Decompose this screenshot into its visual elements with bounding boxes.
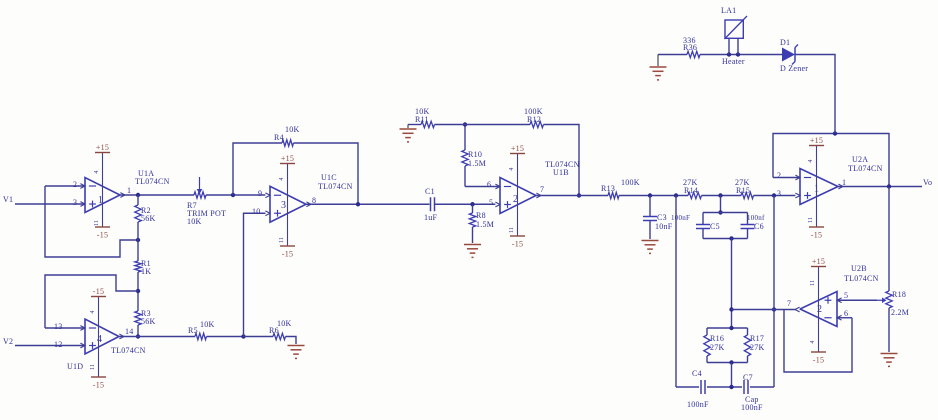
svg-text:-15: -15 [282,250,293,259]
svg-text:1uF: 1uF [424,213,438,222]
svg-text:4: 4 [97,334,102,345]
svg-text:2: 2 [73,180,77,189]
svg-text:3: 3 [777,189,781,198]
svg-text:+15: +15 [511,144,524,153]
svg-text:4: 4 [94,170,100,173]
svg-text:-15: -15 [93,381,104,390]
svg-text:V2: V2 [3,337,13,346]
svg-text:-15: -15 [97,231,108,240]
svg-text:TL074CN: TL074CN [135,177,170,186]
svg-text:R14: R14 [684,186,698,195]
svg-text:+15: +15 [812,257,825,266]
svg-text:1.5M: 1.5M [476,220,494,229]
svg-text:C7: C7 [743,373,753,382]
svg-text:3: 3 [281,200,286,211]
svg-text:R5: R5 [188,326,198,335]
svg-text:11: 11 [509,227,515,233]
svg-text:C3: C3 [657,213,667,222]
svg-text:11: 11 [808,217,814,223]
svg-text:U1C: U1C [321,173,337,182]
svg-text:-15: -15 [811,231,822,240]
svg-text:14: 14 [125,327,134,336]
svg-text:4: 4 [279,177,285,180]
svg-text:+15: +15 [281,154,294,163]
svg-text:C1: C1 [425,187,435,196]
svg-text:27K: 27K [750,343,765,352]
svg-text:100nf: 100nf [747,214,765,222]
svg-text:+15: +15 [96,143,109,152]
svg-text:4: 4 [808,159,814,162]
svg-text:11: 11 [94,220,100,226]
svg-text:TL074CN: TL074CN [844,274,879,283]
svg-text:4: 4 [90,310,96,313]
svg-text:56K: 56K [141,317,156,326]
svg-text:13: 13 [54,322,63,331]
svg-text:U1B: U1B [553,168,569,177]
svg-text:D Zener: D Zener [780,64,808,73]
svg-text:11: 11 [279,237,285,243]
svg-text:R12: R12 [527,115,541,124]
svg-text:1: 1 [127,186,131,195]
svg-text:10K: 10K [187,217,202,226]
svg-text:10: 10 [252,207,261,216]
svg-text:3: 3 [73,198,77,207]
svg-text:1.5M: 1.5M [468,159,486,168]
svg-text:C5: C5 [710,222,720,231]
svg-text:R8: R8 [476,211,486,220]
svg-text:2.2M: 2.2M [891,308,909,317]
svg-text:LA1: LA1 [721,6,736,15]
svg-text:6: 6 [844,309,848,318]
svg-text:U2B: U2B [851,264,867,273]
svg-text:Heater: Heater [722,57,745,66]
svg-text:R17: R17 [750,334,764,343]
svg-text:4: 4 [810,340,816,343]
svg-text:R11: R11 [415,115,429,124]
svg-text:5: 5 [844,291,848,300]
svg-text:56K: 56K [141,214,156,223]
svg-text:27K: 27K [710,343,725,352]
svg-text:R4: R4 [274,133,284,142]
svg-text:1: 1 [842,178,846,187]
svg-text:100nF: 100nF [671,214,690,222]
svg-text:11: 11 [90,364,96,370]
svg-text:C4: C4 [692,369,702,378]
svg-text:100K: 100K [621,178,640,187]
svg-text:100nF: 100nF [687,400,709,409]
svg-text:11: 11 [810,280,816,286]
svg-text:D1: D1 [780,38,790,47]
svg-text:5: 5 [489,198,493,207]
svg-text:4: 4 [509,167,515,170]
svg-text:R10: R10 [468,150,482,159]
svg-text:TL074CN: TL074CN [111,346,146,355]
svg-text:9: 9 [258,189,262,198]
svg-text:100nF: 100nF [741,403,763,412]
svg-text:C6: C6 [754,222,764,231]
svg-text:V1: V1 [3,195,13,204]
svg-text:7: 7 [540,185,544,194]
svg-text:7: 7 [787,299,791,308]
svg-text:TL074CN: TL074CN [848,164,883,173]
svg-text:2: 2 [777,171,781,180]
svg-text:R16: R16 [710,334,724,343]
svg-text:R18: R18 [892,290,906,299]
svg-text:U1D: U1D [67,362,83,371]
svg-text:R13: R13 [601,184,615,193]
svg-text:10K: 10K [277,319,292,328]
svg-text:1K: 1K [141,267,151,276]
svg-text:10K: 10K [285,125,300,134]
svg-text:Vo: Vo [923,178,932,187]
svg-text:-15: -15 [93,287,104,296]
svg-text:6: 6 [487,180,491,189]
svg-text:2: 2 [817,304,822,315]
svg-text:10nF: 10nF [655,222,673,231]
svg-text:-15: -15 [512,240,523,249]
svg-text:R15: R15 [736,186,750,195]
svg-text:-15: -15 [813,356,824,365]
svg-text:U2A: U2A [852,155,868,164]
svg-text:10K: 10K [200,320,215,329]
svg-text:TL074CN: TL074CN [318,182,353,191]
svg-text:12: 12 [54,340,63,349]
svg-text:+15: +15 [810,136,823,145]
svg-text:R36: R36 [683,43,697,52]
